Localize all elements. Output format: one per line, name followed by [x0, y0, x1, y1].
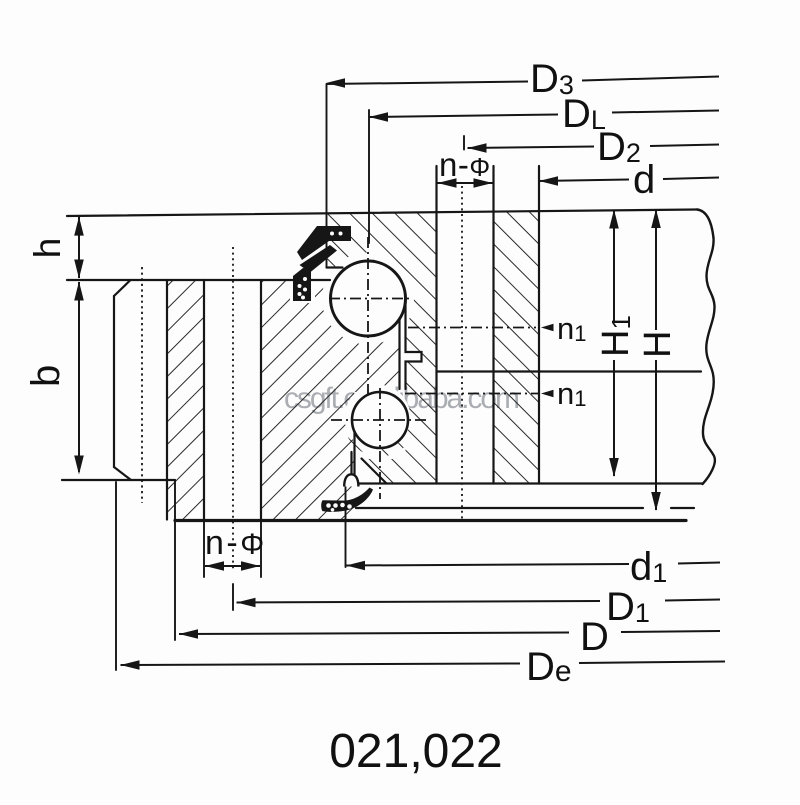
lower ball centerline vertical [379, 388, 381, 499]
De dimension line [121, 664, 521, 666]
top right chamfer [697, 210, 714, 239]
d1 arrow [346, 561, 365, 571]
lower reference line right part [671, 507, 694, 509]
inner ring top face line [67, 279, 330, 281]
n-phi bottom arrows [205, 561, 224, 571]
d1 dimension line [346, 564, 629, 566]
n1 upper arrow [541, 324, 554, 331]
seal zone step [327, 266, 343, 268]
n1 lower arrow [541, 390, 554, 397]
D3 extension line [326, 84, 328, 267]
white pocket around lower ball [345, 385, 411, 451]
dimension group [79, 77, 725, 666]
inner bolt hole left edge [203, 280, 205, 520]
H dimension line lower [655, 360, 657, 510]
lower reference line left part [356, 507, 643, 509]
H1 dimension line lower [613, 360, 615, 476]
b dimension line [78, 282, 80, 472]
channel left edge [398, 317, 400, 389]
DL dimension line [369, 115, 558, 118]
H1 dimension line upper [613, 211, 615, 322]
outer wrap left edge [350, 452, 352, 475]
h dimension line [78, 216, 80, 278]
H dimension line upper [655, 210, 657, 330]
lower seal white dots [326, 503, 352, 512]
lower ball centerline horizontal [331, 419, 427, 421]
svg-text:021,022: 021,022 [329, 725, 503, 778]
n1 lower centerline [405, 393, 538, 395]
hatched section: outer ring left of bolt hole incl. lower wrap [328, 212, 437, 484]
D arrow [179, 629, 198, 639]
outer raceway hatch near lower ball [348, 434, 412, 457]
hatched section: outer ring band right of bolt hole [494, 211, 540, 484]
outer ring split line [437, 370, 702, 372]
inner bolt hole right edge [260, 280, 262, 520]
upper seal white dots [298, 232, 343, 300]
svg-text:n-Φ: n-Φ [439, 146, 491, 183]
inner ring step bottom face [62, 479, 175, 481]
d arrow [539, 176, 558, 186]
DL arrow [369, 112, 388, 122]
upper ball [331, 261, 406, 336]
outer bolt hole right edge / D2 extension [492, 166, 494, 484]
d1 extension line [345, 484, 347, 567]
h arrows [74, 217, 84, 236]
upper ball centerline horizontal [329, 298, 411, 300]
svg-text:n-Φ: n-Φ [205, 524, 267, 562]
n1 upper centerline [408, 327, 536, 329]
D3 dimension line [326, 82, 528, 85]
arrowheads [74, 78, 661, 670]
outer ring top face line [67, 210, 697, 217]
inner ring left edge [113, 296, 115, 467]
svg-text:D: D [580, 615, 609, 659]
svg-text:H: H [637, 331, 679, 358]
channel right edge with notch [406, 300, 422, 389]
n-phi top tick [463, 136, 465, 150]
inner flange band left edge [166, 280, 168, 520]
outer raceway hatch near upper ball [374, 252, 415, 291]
n-phi top dimension line [438, 182, 493, 184]
white pocket around upper ball [322, 253, 414, 345]
H1 arrows [609, 210, 619, 229]
n-phi extension left [203, 521, 205, 577]
svg-text:b: b [24, 365, 68, 387]
lower ball [352, 392, 408, 448]
D dimension line [179, 633, 569, 635]
lower seal crescent [321, 488, 373, 512]
svg-text:d: d [633, 158, 655, 202]
D2 arrow [468, 143, 487, 153]
white gap channel between rings with notch [400, 299, 422, 389]
outer bolt hole left edge [435, 166, 437, 484]
hatched section: inner ring flange band [167, 280, 204, 520]
De extension line [115, 482, 117, 670]
n-phi top arrows [438, 178, 457, 188]
white seal groove in inner ring top [290, 280, 315, 303]
step corner vertical / D extension line [174, 480, 176, 640]
upper ball centerline vertical [367, 237, 369, 396]
D1 tick line [232, 584, 234, 610]
inner ring top-left chamfer [114, 280, 131, 296]
flange hole centerline dash-dot [141, 267, 143, 503]
inner ring bottom-left chamfer [114, 467, 131, 480]
inner ring lower right edge [353, 428, 355, 475]
hatched section: inner ring main block with tongue [261, 280, 400, 520]
lower seal dome [344, 474, 358, 486]
outer ring bottom face [356, 482, 703, 484]
outer wrap chamfer above lower seal [362, 459, 387, 484]
upper seal black parts [293, 226, 351, 301]
b arrows [74, 282, 84, 301]
D1 dimension line [237, 601, 601, 603]
inner ring bottom heavy line [175, 519, 686, 522]
D1 arrow [237, 598, 256, 608]
DL extension line [368, 110, 370, 243]
n-phi extension right [260, 521, 262, 577]
n-phi bottom dimension line [205, 565, 260, 567]
inner bolt axis dotted [232, 247, 234, 571]
De arrow [121, 660, 140, 670]
H arrows [651, 209, 661, 228]
outer bolt axis dotted [461, 186, 463, 521]
D3 arrow [326, 78, 345, 88]
d dimension line [539, 180, 629, 182]
svg-text:h: h [27, 238, 68, 259]
D2 dimension line [468, 147, 595, 149]
wavy break edge right [703, 238, 715, 484]
outer ring rim edge / d extension [538, 166, 540, 484]
